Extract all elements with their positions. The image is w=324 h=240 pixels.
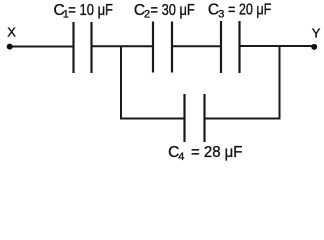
svg-text:X: X bbox=[7, 25, 16, 40]
svg-text:Y: Y bbox=[312, 26, 321, 41]
svg-text:= 10 μF: = 10 μF bbox=[68, 2, 113, 19]
svg-text:2: 2 bbox=[144, 9, 150, 21]
svg-text:= 28 μF: = 28 μF bbox=[191, 144, 242, 161]
svg-text:= 20 μF: = 20 μF bbox=[228, 2, 271, 19]
svg-text:3: 3 bbox=[218, 9, 224, 21]
svg-text:4: 4 bbox=[178, 151, 184, 163]
svg-text:= 30 μF: = 30 μF bbox=[151, 2, 195, 19]
